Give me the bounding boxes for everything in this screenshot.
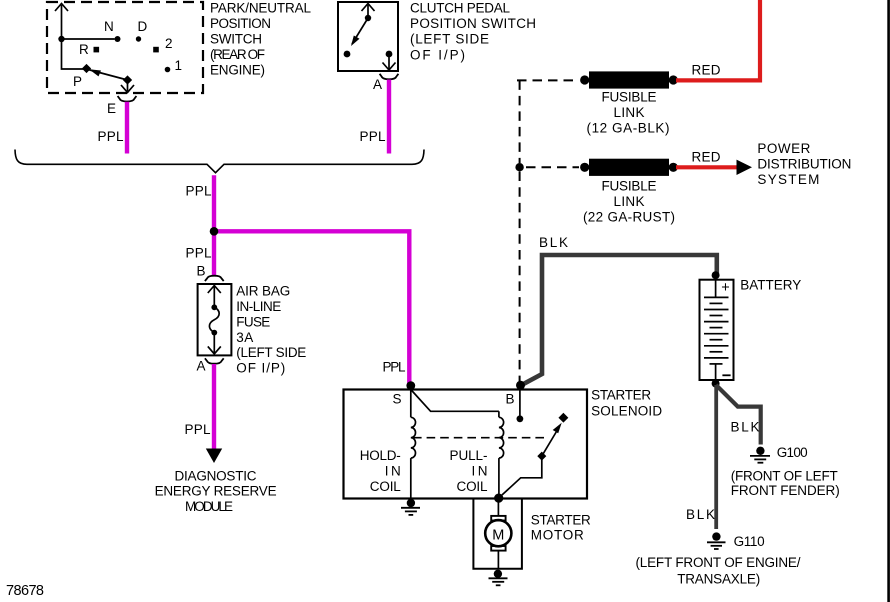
svg-text:OF I/P): OF I/P) bbox=[236, 361, 285, 376]
svg-text:PPL: PPL bbox=[186, 184, 212, 199]
svg-text:LINK: LINK bbox=[614, 194, 645, 209]
svg-text:(LEFT FRONT OF ENGINE/: (LEFT FRONT OF ENGINE/ bbox=[636, 555, 801, 570]
terminal A connector cup (fuse bottom) bbox=[197, 358, 224, 373]
label: PARK/NEUTRAL POSITION SWITCH (REAR OF ENGINE) bbox=[210, 0, 311, 77]
label: DIAGNOSTIC ENERGY RESERVE MODULE bbox=[155, 468, 277, 514]
svg-text:(12 GA-BLK): (12 GA-BLK) bbox=[587, 121, 670, 136]
label: FUSIBLE LINK (12 GA-BLK) bbox=[587, 90, 670, 136]
svg-text:SOLENOID: SOLENOID bbox=[591, 403, 662, 418]
svg-text:BATTERY: BATTERY bbox=[740, 278, 801, 293]
svg-text:ENERGY RESERVE: ENERGY RESERVE bbox=[155, 484, 277, 499]
svg-text:3A: 3A bbox=[236, 330, 253, 345]
fuse element: down arrow bbox=[208, 333, 221, 354]
svg-text:MODULE: MODULE bbox=[185, 499, 233, 514]
svg-text:TRANSAXLE): TRANSAXLE) bbox=[677, 572, 760, 587]
svg-text:BLK: BLK bbox=[686, 507, 715, 522]
label: AIR BAG IN-LINE FUSE 3A (LEFT SIDE OF I/P) bbox=[236, 284, 306, 376]
hold-in coil bbox=[411, 390, 416, 499]
contact D bbox=[136, 19, 148, 42]
contact 2 bbox=[153, 36, 172, 52]
svg-text:(22 GA-RUST): (22 GA-RUST) bbox=[583, 210, 675, 225]
label: PULL-IN COIL bbox=[450, 448, 488, 494]
label: STARTER MOTOR bbox=[531, 513, 591, 543]
svg-text:PARK/NEUTRAL: PARK/NEUTRAL bbox=[210, 0, 311, 15]
svg-text:PPL: PPL bbox=[186, 246, 212, 261]
label: HOLD-IN COIL bbox=[360, 448, 401, 494]
svg-text:DIAGNOSTIC: DIAGNOSTIC bbox=[175, 468, 257, 483]
svg-text:STARTER: STARTER bbox=[531, 513, 591, 528]
svg-text:PPL: PPL bbox=[185, 422, 211, 437]
svg-text:D: D bbox=[138, 19, 148, 34]
svg-text:IN-LINE: IN-LINE bbox=[236, 299, 281, 314]
svg-text:FUSIBLE: FUSIBLE bbox=[602, 179, 657, 194]
svg-text:STARTER: STARTER bbox=[591, 388, 651, 403]
contact P bbox=[73, 64, 91, 89]
starter solenoid box bbox=[344, 388, 663, 499]
svg-text:POSITION: POSITION bbox=[210, 16, 271, 31]
svg-text:B: B bbox=[506, 391, 515, 406]
pull-in coil bbox=[499, 411, 504, 497]
fuse element: up arrow bbox=[208, 286, 221, 308]
contact R bbox=[79, 42, 99, 57]
svg-text:COIL: COIL bbox=[457, 479, 488, 494]
svg-text:ENGINE): ENGINE) bbox=[210, 63, 265, 78]
svg-text:FUSIBLE: FUSIBLE bbox=[602, 90, 657, 105]
wiper arm of clutch switch with arrowhead bbox=[351, 18, 368, 46]
svg-text:+: + bbox=[721, 280, 729, 296]
svg-text:P: P bbox=[73, 74, 82, 89]
svg-text:SWITCH: SWITCH bbox=[210, 32, 262, 47]
svg-text:FRONT FENDER): FRONT FENDER) bbox=[731, 483, 840, 498]
wiper arm with arrowhead toward P bbox=[88, 69, 128, 80]
wire RED from FL2 to power distribution arrow bbox=[676, 149, 737, 167]
ground at starter motor bbox=[489, 570, 508, 586]
ground G110 bbox=[707, 532, 765, 549]
svg-text:R: R bbox=[79, 42, 89, 57]
svg-text:(LEFT SIDE: (LEFT SIDE bbox=[410, 32, 489, 47]
label: (FRONT OF LEFT FRONT FENDER) bbox=[731, 468, 840, 498]
svg-text:IN: IN bbox=[472, 464, 488, 479]
svg-text:MOTOR: MOTOR bbox=[531, 527, 584, 542]
svg-text:BLK: BLK bbox=[731, 419, 760, 434]
svg-text:RED: RED bbox=[692, 63, 721, 78]
svg-text:A: A bbox=[197, 359, 206, 374]
ground G100 bbox=[750, 445, 808, 463]
dashed armature link bbox=[413, 437, 545, 439]
wire: dashed feed to fusible link 1 bbox=[517, 80, 579, 163]
svg-text:(REAR OF: (REAR OF bbox=[210, 47, 265, 62]
right page border bbox=[887, 0, 890, 602]
svg-text:G100: G100 bbox=[777, 445, 808, 460]
wire: B terminal into solenoid bbox=[517, 390, 524, 423]
wire: clutch switch A terminal with down arrow bbox=[383, 51, 396, 70]
label: CLUTCH PEDAL POSITION SWITCH (LEFT SIDE OF I/P) bbox=[410, 1, 536, 63]
fuse element squiggle with dots bbox=[209, 304, 219, 335]
solenoid contact (fixed) bbox=[558, 413, 568, 423]
svg-text:LINK: LINK bbox=[614, 105, 645, 120]
wire: dashed feed down to solenoid B bbox=[519, 172, 521, 382]
svg-text:M: M bbox=[492, 528, 504, 544]
node: solenoid output to starter motor bbox=[494, 494, 503, 503]
wire to N contact bbox=[62, 38, 115, 40]
node: solenoid B terminal junction bbox=[516, 381, 525, 390]
wire: moving contact to motor node bbox=[500, 456, 542, 497]
svg-text:2: 2 bbox=[165, 36, 173, 51]
svg-text:POWER: POWER bbox=[757, 141, 810, 156]
wire: S to pull-in coil bbox=[411, 390, 499, 412]
node: solenoid S terminal bbox=[393, 381, 416, 406]
node: switch common junction bbox=[58, 36, 64, 42]
wire BLK from battery - to G100 bbox=[716, 385, 761, 445]
svg-text:N: N bbox=[104, 19, 114, 34]
svg-text:POSITION SWITCH: POSITION SWITCH bbox=[410, 16, 536, 31]
fusible link FL2 (22 GA-RUST) bbox=[580, 159, 678, 176]
svg-text:E: E bbox=[107, 101, 116, 116]
svg-text:B: B bbox=[197, 264, 206, 279]
svg-text:PULL-: PULL- bbox=[450, 448, 488, 463]
label: (LEFT FRONT OF ENGINE/ TRANSAXLE) bbox=[636, 555, 801, 587]
node: wiper pivot bbox=[123, 75, 132, 84]
contact 1 bbox=[165, 58, 182, 73]
wire: switch common vertical with up arrow bbox=[55, 4, 68, 40]
wire to P contact bbox=[62, 39, 84, 69]
svg-text:CLUTCH PEDAL: CLUTCH PEDAL bbox=[410, 1, 510, 16]
svg-text:IN: IN bbox=[385, 464, 401, 479]
svg-text:(FRONT OF LEFT: (FRONT OF LEFT bbox=[731, 468, 838, 483]
node: clutch switch lower-left contact bbox=[344, 51, 351, 58]
svg-text:DISTRIBUTION: DISTRIBUTION bbox=[757, 157, 851, 172]
fusible link FL1 (12 GA-BLK) bbox=[580, 71, 678, 88]
arrowhead into DERM bbox=[206, 449, 222, 464]
park/neutral position switch dashed box bbox=[47, 2, 203, 93]
svg-text:HOLD-: HOLD- bbox=[360, 448, 401, 463]
svg-text:OF I/P): OF I/P) bbox=[410, 47, 465, 62]
svg-text:SYSTEM: SYSTEM bbox=[757, 172, 819, 187]
terminal B connector dome (fuse top) bbox=[197, 264, 224, 282]
svg-text:BLK: BLK bbox=[539, 235, 568, 250]
svg-text:PPL: PPL bbox=[98, 129, 124, 144]
node: clutch switch upper contact bbox=[365, 15, 371, 21]
contact N bbox=[104, 19, 121, 42]
wire PPL from clutch A terminal bbox=[360, 80, 390, 154]
svg-text:78678: 78678 bbox=[6, 583, 44, 599]
svg-text:S: S bbox=[393, 391, 402, 406]
wire BLK from battery + to solenoid B bbox=[521, 235, 717, 385]
svg-text:FUSE: FUSE bbox=[236, 315, 270, 330]
wire PPL from brace to fuse bbox=[186, 175, 215, 276]
svg-text:COIL: COIL bbox=[370, 479, 401, 494]
clutch pedal position switch box bbox=[338, 2, 398, 71]
wire BLK from battery - to G110 bbox=[686, 385, 716, 529]
terminal A connector cup (clutch) bbox=[373, 74, 398, 92]
solenoid moving contact arm with arrowhead bbox=[537, 423, 561, 461]
node: dashed splice junction bbox=[515, 163, 523, 171]
wire PPL from E terminal bbox=[98, 102, 128, 154]
svg-text:PPL: PPL bbox=[383, 360, 406, 375]
wire: dashed feed to fusible link 2 bbox=[526, 166, 579, 168]
ground at hold-in coil bbox=[401, 499, 420, 515]
svg-text:(LEFT SIDE: (LEFT SIDE bbox=[236, 345, 306, 360]
terminal E connector cup bbox=[107, 96, 136, 116]
battery bbox=[700, 271, 802, 387]
label: POWER DISTRIBUTION SYSTEM bbox=[757, 141, 851, 187]
starter motor housing loop bbox=[473, 499, 522, 569]
svg-text:RED: RED bbox=[692, 149, 721, 164]
svg-text:AIR BAG: AIR BAG bbox=[236, 284, 290, 299]
wire: clutch switch upper terminal with up arrow bbox=[362, 4, 375, 19]
wire RED from FL1 to top edge bbox=[676, 0, 760, 80]
svg-text:PPL: PPL bbox=[360, 129, 386, 144]
air bag in-line fuse box bbox=[198, 284, 232, 355]
svg-text:1: 1 bbox=[175, 58, 183, 73]
svg-text:A: A bbox=[373, 77, 382, 92]
label: FUSIBLE LINK (22 GA-RUST) bbox=[583, 179, 675, 225]
arrowhead to power distribution system bbox=[737, 160, 753, 175]
wire PPL from fuse A to DERM bbox=[185, 364, 215, 449]
wire PPL branch to starter solenoid S bbox=[216, 231, 409, 385]
starter motor bbox=[485, 499, 511, 569]
svg-text:G110: G110 bbox=[734, 534, 765, 549]
wire: wiper to E terminal with down arrow bbox=[121, 80, 134, 93]
splice brace (bus gather) bbox=[15, 150, 424, 173]
node: PPL splice junction bbox=[210, 227, 219, 236]
